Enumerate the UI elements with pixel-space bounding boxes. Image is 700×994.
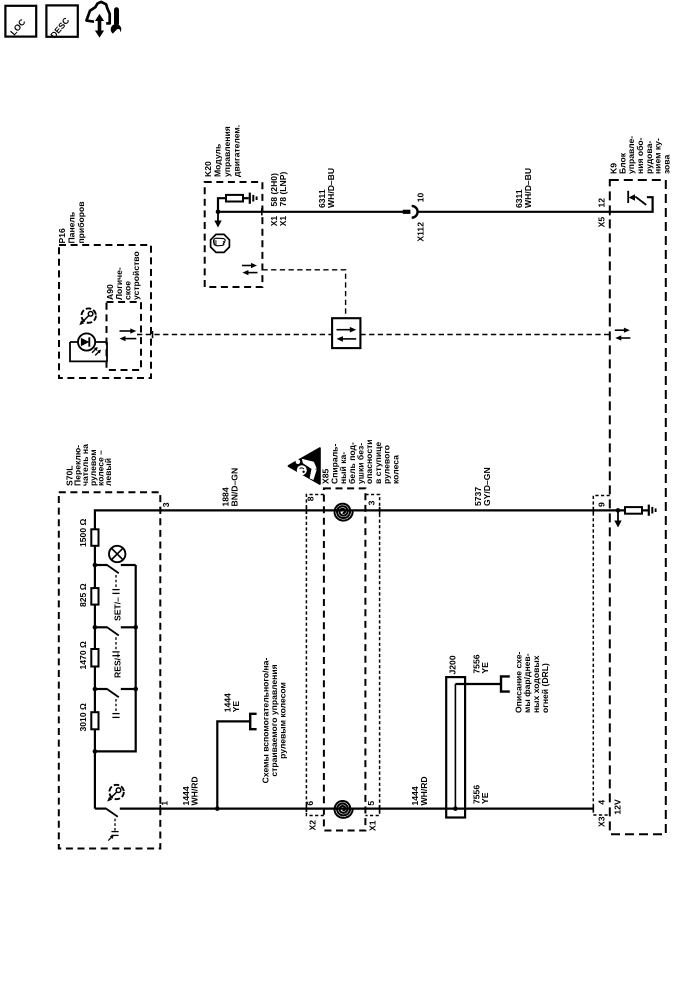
svg-text:825 Ω: 825 Ω <box>78 583 88 607</box>
svg-text:SET/–: SET/– <box>113 597 123 621</box>
master switch <box>95 807 106 809</box>
ground K20 <box>250 193 257 204</box>
svg-text:9: 9 <box>596 502 606 507</box>
svg-text:1: 1 <box>160 801 170 806</box>
junction dot 1444 branch <box>215 806 220 811</box>
bus segment <box>94 605 96 649</box>
splice internal tap <box>454 684 456 809</box>
wire 1884 from bus corner to X2 <box>95 510 307 529</box>
wire into K9 pin 9 <box>593 509 625 511</box>
svg-text:X1: X1 <box>368 820 378 831</box>
icon DESC box <box>46 5 77 40</box>
wire 1444 to X2 <box>120 807 307 809</box>
svg-text:YE: YE <box>480 792 490 804</box>
resistor 825 <box>91 588 98 605</box>
serial data dashed line gateway to K9 <box>360 334 609 336</box>
octagon hand icon <box>211 234 230 252</box>
driver switch symbol in K9 <box>610 191 653 212</box>
connector X112 symbol <box>403 206 418 218</box>
junction dot branch RES <box>93 625 98 630</box>
svg-text:колеса: колеса <box>390 455 400 484</box>
svg-text:Панель: Панель <box>66 212 76 244</box>
pin tick K9 9 <box>592 507 594 514</box>
icon LOC box <box>5 6 36 37</box>
junction dot branch 3 <box>93 687 98 692</box>
svg-text:1470 Ω: 1470 Ω <box>78 641 88 670</box>
serial data symbol K9 <box>615 328 631 341</box>
wire 6311 right segment <box>418 211 610 213</box>
warning triangle airbag <box>289 448 320 484</box>
svg-text:5: 5 <box>366 801 376 806</box>
actuator SET <box>115 575 117 589</box>
junction dot K20 <box>216 210 221 215</box>
wire 1444/7556 X1 to K9 <box>306 807 593 809</box>
svg-text:устройство: устройство <box>131 251 141 300</box>
svg-text:X1: X1 <box>278 216 288 227</box>
junction dots collector <box>133 625 138 630</box>
arrow down in K20 <box>217 212 219 221</box>
pin tick S70L 3 <box>159 507 161 514</box>
off-page bracket 1444 YE <box>250 714 256 729</box>
gauge icon <box>79 308 96 325</box>
rotary control icon <box>107 785 124 802</box>
svg-text:огней (DRL): огней (DRL) <box>540 663 550 713</box>
junction dot K9 <box>616 508 621 513</box>
tap wire 7556 to DRL <box>455 683 501 685</box>
pin tick K9 4 <box>592 805 594 812</box>
resistor in K20 <box>226 195 243 202</box>
resistor 1500 <box>91 529 98 546</box>
branch wire 1444 YE <box>217 721 250 808</box>
junction dot branch SET <box>93 563 98 568</box>
svg-text:78 (LNP): 78 (LNP) <box>278 172 288 207</box>
lamp symbol <box>109 546 125 562</box>
svg-text:WH/D–BU: WH/D–BU <box>326 168 336 208</box>
svg-text:зова: зова <box>661 155 671 174</box>
pin tick K9 X5-12 <box>609 208 611 215</box>
svg-text:1500 Ω: 1500 Ω <box>78 518 88 547</box>
serial data symbol K20 <box>242 263 258 275</box>
gateway symbol box <box>332 318 360 348</box>
svg-text:X5: X5 <box>597 217 607 228</box>
actuator master <box>114 819 116 831</box>
resistor in K9 <box>625 507 642 514</box>
wire 5737 X1 to K9 <box>306 509 593 511</box>
svg-text:RES/+: RES/+ <box>113 653 123 678</box>
wire 6311 left segment <box>218 211 403 213</box>
ground K9 <box>649 505 656 516</box>
svg-text:8: 8 <box>306 496 316 501</box>
K9 body control module box <box>610 180 666 834</box>
svg-text:X3: X3 <box>597 816 607 827</box>
svg-text:3: 3 <box>161 502 171 507</box>
bus segment to collector return <box>94 729 96 808</box>
pin tick S70L 1 <box>159 805 161 812</box>
S70L steering wheel switch box <box>59 492 161 848</box>
switch branch 3 <box>95 688 107 690</box>
svg-text:12: 12 <box>597 198 607 208</box>
arrow down in K9 <box>617 510 619 520</box>
resistor 3010 <box>91 712 98 729</box>
svg-text:4: 4 <box>596 800 606 805</box>
bus segment <box>94 667 96 713</box>
svg-text:двигателем.: двигателем. <box>231 125 241 177</box>
svg-text:12V: 12V <box>612 799 622 815</box>
serial data dashed branch from K20 <box>262 270 345 318</box>
pin tick K20 X1 <box>261 208 263 215</box>
off-page bracket DRL <box>501 676 510 691</box>
svg-text:X112: X112 <box>416 222 426 242</box>
X85 clockspring coil box <box>324 488 366 830</box>
A90 logic device box <box>107 302 142 370</box>
coil bottom in X85 <box>335 801 353 818</box>
actuator RES <box>115 637 117 651</box>
svg-text:3: 3 <box>366 500 376 505</box>
svg-text:6: 6 <box>305 801 315 806</box>
svg-text:X2: X2 <box>308 820 318 831</box>
indicator LED in P16 <box>70 333 107 361</box>
svg-text:WH/RD: WH/RD <box>190 776 200 805</box>
svg-text:рулевым колесом: рулевым колесом <box>278 682 288 759</box>
icon vehicle with wrench <box>86 2 122 38</box>
svg-text:левый: левый <box>103 458 113 486</box>
serial data symbol A90 <box>120 328 137 341</box>
svg-text:WH/D–BU: WH/D–BU <box>523 168 533 208</box>
P16 instrument panel box <box>59 245 151 378</box>
switch SET/- <box>95 564 107 566</box>
connector strip X3 on K9 <box>593 496 610 816</box>
svg-text:WH/RD: WH/RD <box>419 776 429 805</box>
svg-text:J200: J200 <box>448 655 458 674</box>
wire resistor to junction <box>218 198 226 212</box>
pin tick at P16 edge <box>152 331 154 338</box>
svg-text:3010 Ω: 3010 Ω <box>78 703 88 732</box>
actuator branch 3 <box>115 699 117 713</box>
svg-text:10: 10 <box>416 193 426 203</box>
pin ticks X2-6 X1-5 <box>305 805 307 812</box>
coil top in X85 <box>335 504 353 521</box>
splice pack J200 <box>446 677 465 817</box>
svg-text:BN/D–GN: BN/D–GN <box>230 468 240 507</box>
bus segment <box>94 546 96 588</box>
resistor 1470 <box>91 649 98 667</box>
svg-text:YE: YE <box>480 662 490 674</box>
wire resistor to ground K9 <box>642 509 648 511</box>
switch RES/+ <box>95 626 107 628</box>
connector strip X1 <box>365 495 379 816</box>
K20 engine control module box <box>205 182 263 287</box>
serial data dashed line A90 to gateway <box>137 334 332 336</box>
collector bus <box>95 565 136 751</box>
connector strip X2 <box>306 495 324 816</box>
pin ticks X2-8 X1-3 <box>305 507 307 514</box>
svg-text:приборов: приборов <box>76 201 86 243</box>
wire resistor to ground <box>243 197 249 199</box>
svg-text:GY/D–GN: GY/D–GN <box>482 467 492 506</box>
svg-text:YE: YE <box>231 701 241 713</box>
